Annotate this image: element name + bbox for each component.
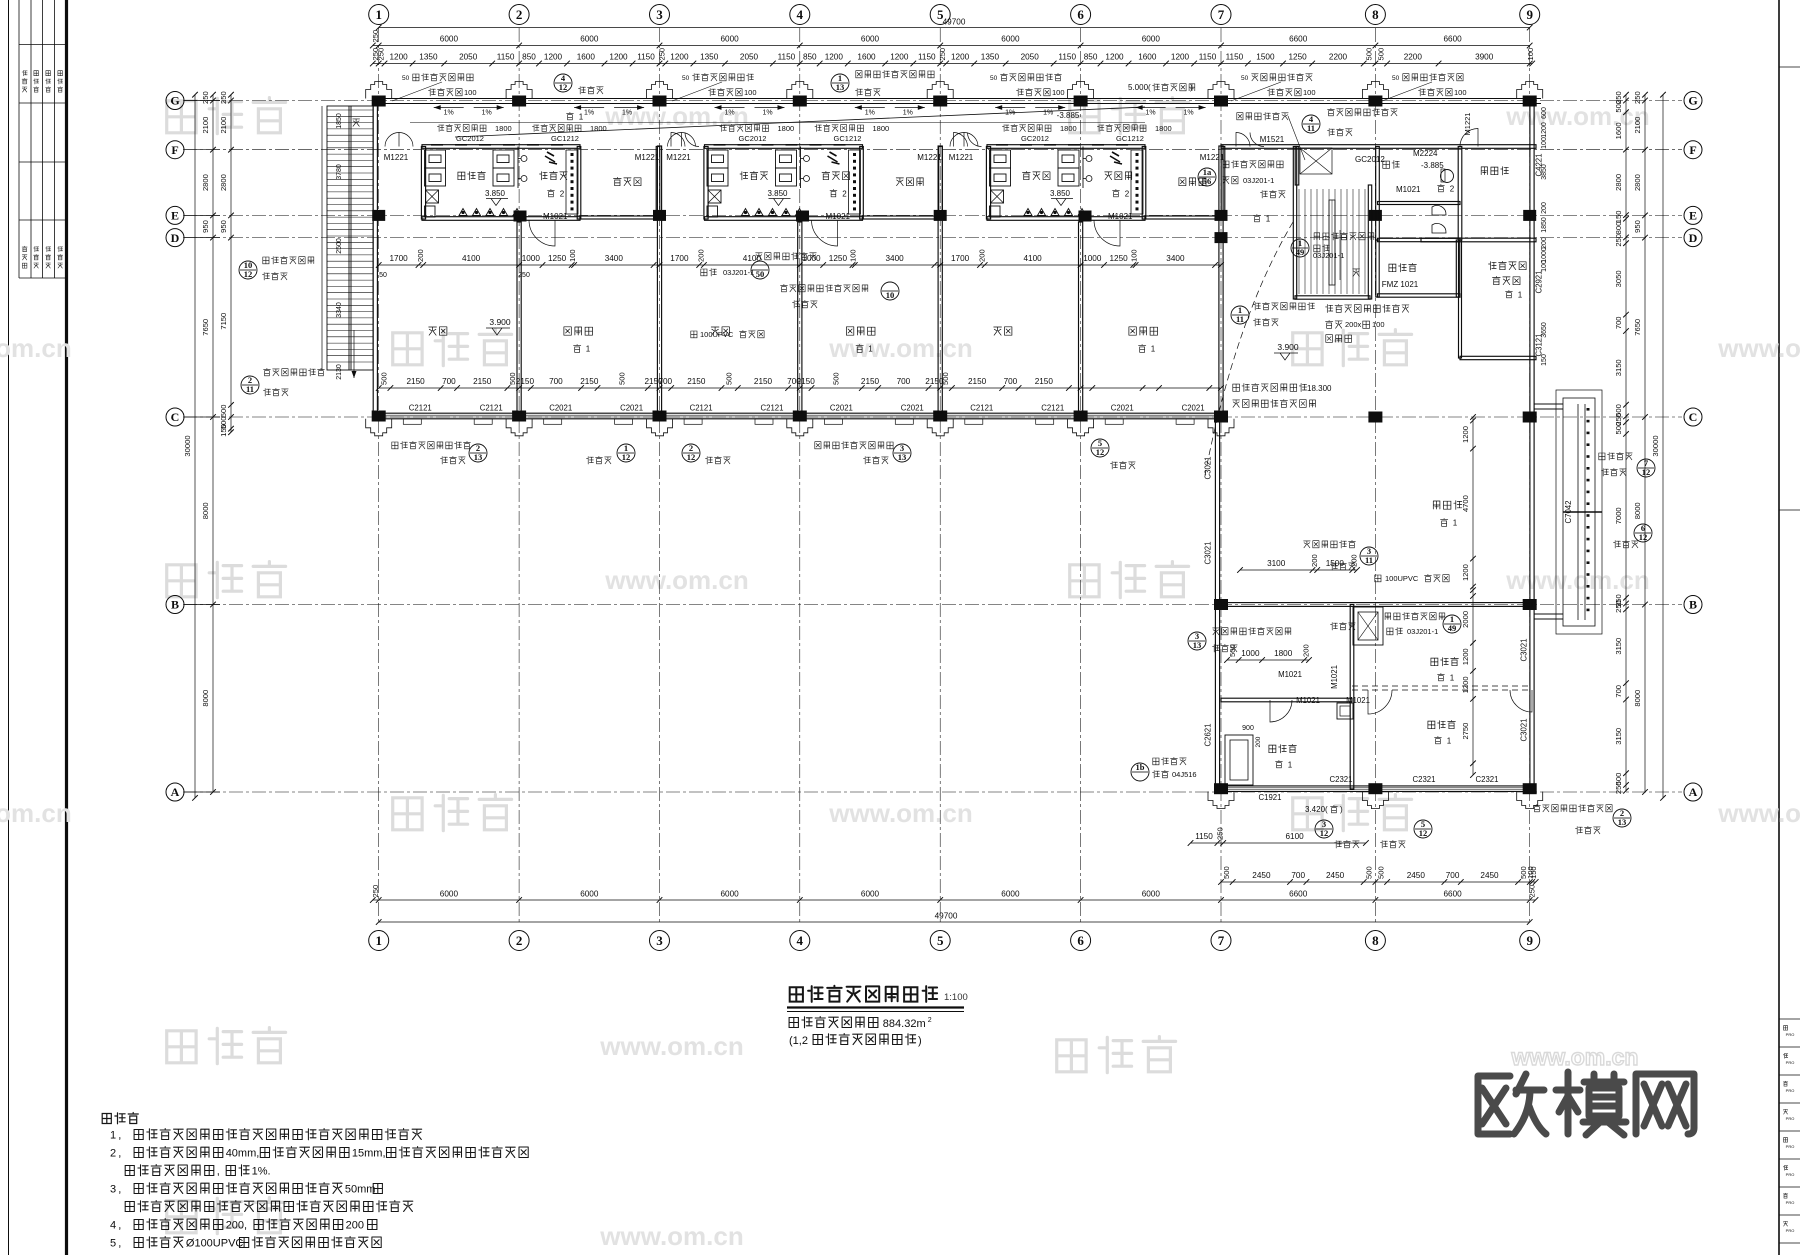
svg-text:500: 500 xyxy=(380,372,389,385)
svg-text:500: 500 xyxy=(1365,866,1374,879)
svg-text:4700: 4700 xyxy=(1461,495,1470,512)
svg-text:1: 1 xyxy=(586,345,591,354)
svg-text:M1021: M1021 xyxy=(1296,696,1320,705)
main wing left exterior wall xyxy=(373,99,377,418)
svg-text:3.850: 3.850 xyxy=(1050,189,1071,198)
svg-text:1%: 1% xyxy=(865,110,875,117)
storage room label xyxy=(1331,622,1356,630)
svg-text:3050: 3050 xyxy=(1614,270,1623,287)
corridor inner edge line xyxy=(410,122,1145,124)
svg-text:3100: 3100 xyxy=(1267,559,1286,568)
svg-text:1200: 1200 xyxy=(670,53,689,62)
drawing title xyxy=(790,986,937,1002)
svg-text:1600: 1600 xyxy=(1138,53,1157,62)
svg-text:C2121: C2121 xyxy=(480,404,503,413)
svg-text:250: 250 xyxy=(377,48,386,61)
canopy annotation bottom-left of wing xyxy=(1153,757,1186,765)
staff toilet leader bubble 4/11 xyxy=(1302,115,1320,133)
svg-text:1%: 1% xyxy=(584,110,594,117)
svg-text:250: 250 xyxy=(938,48,947,61)
svg-text:250: 250 xyxy=(1614,781,1623,794)
svg-text:200: 200 xyxy=(1350,554,1359,567)
svg-text:2000: 2000 xyxy=(1461,611,1470,628)
lift leader bubble 3/11 xyxy=(1360,547,1378,565)
svg-text:6600: 6600 xyxy=(1443,890,1462,899)
svg-text:M2224: M2224 xyxy=(1413,149,1438,158)
svg-text:2130: 2130 xyxy=(336,364,343,380)
electrical room label xyxy=(1389,263,1417,272)
svg-text:C1921: C1921 xyxy=(1259,793,1282,802)
svg-text:1%: 1% xyxy=(1043,110,1053,117)
svg-text:2150: 2150 xyxy=(406,377,425,386)
svg-text:30000: 30000 xyxy=(183,435,192,456)
svg-text:12: 12 xyxy=(1320,828,1329,838)
svg-text:M1021: M1021 xyxy=(1330,665,1339,689)
svg-text:3150: 3150 xyxy=(1614,638,1623,655)
svg-text:1200: 1200 xyxy=(544,53,563,62)
svg-text:50: 50 xyxy=(1392,75,1400,82)
svg-text:C2321: C2321 xyxy=(1413,775,1436,784)
svg-text:1200: 1200 xyxy=(1541,122,1548,138)
svg-text:1800: 1800 xyxy=(590,124,607,133)
horizontal grid lines A-G xyxy=(183,100,1682,102)
stair lou1 label xyxy=(1254,214,1261,222)
svg-text:18.300: 18.300 xyxy=(1307,384,1332,393)
svg-text:C2121: C2121 xyxy=(1041,404,1064,413)
svg-text:100UPVC: 100UPVC xyxy=(700,330,734,339)
svg-text:2150: 2150 xyxy=(797,377,816,386)
svg-text:2050: 2050 xyxy=(1021,53,1040,62)
svg-text:C2121: C2121 xyxy=(761,404,784,413)
svg-text:1200: 1200 xyxy=(1461,648,1470,665)
svg-text:1800: 1800 xyxy=(1060,124,1077,133)
svg-text:1200: 1200 xyxy=(609,53,628,62)
sheet border left thin line xyxy=(8,0,10,1255)
office room labels xyxy=(1431,657,1459,666)
svg-text:900: 900 xyxy=(1242,725,1254,732)
svg-text:3850: 3850 xyxy=(1541,164,1548,180)
svg-text:2450: 2450 xyxy=(1252,871,1271,880)
svg-text:3.900: 3.900 xyxy=(489,317,511,327)
svg-text:M1221: M1221 xyxy=(635,153,660,162)
svg-text:200: 200 xyxy=(697,249,706,262)
sheet border left thick line xyxy=(65,0,68,1255)
svg-text:): ) xyxy=(918,1035,922,1047)
svg-text:3400: 3400 xyxy=(1166,254,1185,263)
svg-text:12: 12 xyxy=(559,82,568,92)
svg-text:www.om.cn: www.om.cn xyxy=(1505,565,1650,595)
svg-text:1800: 1800 xyxy=(495,124,512,133)
top leader bubble 1/13 xyxy=(831,74,849,92)
svg-text:E: E xyxy=(171,209,179,223)
svg-text:1600: 1600 xyxy=(857,53,876,62)
svg-text:C2021: C2021 xyxy=(549,404,572,413)
svg-text:GC2012: GC2012 xyxy=(456,134,484,143)
window sill bumps row C xyxy=(403,419,421,425)
svg-text:100: 100 xyxy=(1526,48,1535,61)
svg-text:M1021: M1021 xyxy=(1346,696,1370,705)
svg-text:250: 250 xyxy=(219,91,228,104)
svg-text:1%: 1% xyxy=(903,110,913,117)
svg-text:100: 100 xyxy=(1303,88,1316,97)
svg-text:1250: 1250 xyxy=(1109,254,1128,263)
svg-text:1150: 1150 xyxy=(1195,832,1213,841)
svg-text:C2121: C2121 xyxy=(690,404,713,413)
svg-text:3780: 3780 xyxy=(336,164,343,180)
svg-text:100: 100 xyxy=(1052,88,1065,97)
leader lines top xyxy=(392,82,442,101)
svg-text:6000: 6000 xyxy=(440,35,459,44)
bottom detail dims right wing xyxy=(1221,881,1536,883)
svg-text:,: , xyxy=(118,1148,124,1160)
svg-text:(1,2: (1,2 xyxy=(789,1035,808,1047)
svg-text:5: 5 xyxy=(110,1238,116,1250)
external stair no.2 xyxy=(327,106,373,370)
svg-text:www.om.cn: www.om.cn xyxy=(0,798,72,828)
svg-text:): ) xyxy=(1340,805,1343,814)
svg-text:D: D xyxy=(171,231,180,245)
svg-text:700: 700 xyxy=(658,377,672,386)
roof hatch dashed box xyxy=(1300,148,1332,174)
urinal fixtures xyxy=(1432,205,1446,215)
svg-text:2: 2 xyxy=(1450,185,1455,194)
svg-text:GC1212: GC1212 xyxy=(551,134,579,143)
cloakroom partitions xyxy=(656,147,660,220)
svg-text:8: 8 xyxy=(1372,933,1379,948)
svg-text:1350: 1350 xyxy=(419,53,438,62)
svg-text:8000: 8000 xyxy=(1633,690,1642,707)
svg-text:www.om.cn: www.om.cn xyxy=(0,333,72,363)
svg-text:PRO: PRO xyxy=(1786,1116,1795,1121)
svg-text:50mm: 50mm xyxy=(345,1184,376,1196)
svg-text:500: 500 xyxy=(725,372,734,385)
rainpipe label lower xyxy=(1375,575,1381,582)
svg-text:C2021: C2021 xyxy=(830,404,853,413)
svg-text:1800: 1800 xyxy=(1274,649,1293,658)
svg-text:2800: 2800 xyxy=(219,174,228,191)
svg-text:200x: 200x xyxy=(1345,320,1362,329)
svg-text:100: 100 xyxy=(1129,249,1138,262)
svg-text:500: 500 xyxy=(1376,48,1385,61)
svg-text:F: F xyxy=(1689,143,1696,157)
grid circles left A-G xyxy=(166,92,184,110)
svg-text:200: 200 xyxy=(977,249,986,262)
sanitary module unit 3 xyxy=(987,145,1145,149)
rainpipe annotation upper xyxy=(1291,239,1309,257)
svg-text:11: 11 xyxy=(246,384,254,394)
title area note line 1 xyxy=(789,1017,878,1028)
svg-text:2500: 2500 xyxy=(336,238,343,254)
svg-text:50: 50 xyxy=(756,269,765,279)
svg-text:4100: 4100 xyxy=(1023,254,1042,263)
svg-text:2800: 2800 xyxy=(201,174,210,191)
svg-text:6000: 6000 xyxy=(720,35,739,44)
svg-text:11: 11 xyxy=(1365,555,1373,565)
svg-text:500: 500 xyxy=(832,372,841,385)
svg-text:1b: 1b xyxy=(1136,762,1145,772)
svg-text:2200: 2200 xyxy=(1329,53,1348,62)
svg-text:Ø100UPVC: Ø100UPVC xyxy=(186,1238,244,1250)
svg-text:G: G xyxy=(170,94,179,108)
stair leader bubble 2/11 xyxy=(241,376,259,394)
svg-text:200: 200 xyxy=(1541,237,1548,249)
room interior dim row upper xyxy=(379,264,1221,266)
svg-text:1500: 1500 xyxy=(1326,559,1345,568)
svg-text:1600: 1600 xyxy=(577,53,596,62)
svg-text:50: 50 xyxy=(682,75,690,82)
svg-text:C2621: C2621 xyxy=(1204,724,1213,747)
svg-text:www.om.cn: www.om.cn xyxy=(828,798,973,828)
svg-text:50: 50 xyxy=(990,75,998,82)
svg-text:,: , xyxy=(217,1166,220,1178)
svg-text:700: 700 xyxy=(1614,316,1623,329)
columns right wing rows C/B/A xyxy=(1214,412,1228,423)
corridor doors M1221 arcs xyxy=(385,133,399,147)
svg-text:,: , xyxy=(118,1220,124,1232)
sanitary module unit 1 (WC+wash+cloak) xyxy=(422,145,580,149)
bottom overall dim 49700 xyxy=(379,921,1530,923)
svg-text:2800: 2800 xyxy=(1633,174,1642,191)
svg-text:-3.885: -3.885 xyxy=(1057,111,1080,120)
office partition wall row B xyxy=(1221,603,1532,607)
svg-text:200: 200 xyxy=(346,1220,364,1232)
svg-text:100UPVC: 100UPVC xyxy=(1385,574,1419,583)
unit enlargement note xyxy=(781,284,868,292)
svg-text:PRO: PRO xyxy=(1786,1172,1795,1177)
svg-text:F: F xyxy=(171,143,178,157)
bottom mini dims 1150 250 6100 xyxy=(1191,842,1366,844)
svg-text:6000: 6000 xyxy=(861,35,880,44)
archive room label xyxy=(1481,167,1508,175)
svg-text:3400: 3400 xyxy=(885,254,904,263)
svg-text:C2921: C2921 xyxy=(1535,271,1544,294)
svg-text:1: 1 xyxy=(1288,761,1293,770)
top overall dimension 49700 xyxy=(379,27,1530,29)
interior mini dims right wing xyxy=(1240,569,1357,571)
svg-text:FMZ 1021: FMZ 1021 xyxy=(1382,280,1419,289)
svg-text:M1221: M1221 xyxy=(949,153,974,162)
svg-text:6: 6 xyxy=(1077,933,1084,948)
right detail dim chain xyxy=(1625,95,1627,791)
svg-text:2200: 2200 xyxy=(1404,53,1423,62)
svg-text:13: 13 xyxy=(1193,640,1202,650)
bottom leader bubbles right wing xyxy=(1315,820,1333,838)
title-block table top-left xyxy=(18,0,20,278)
svg-text:2: 2 xyxy=(110,1148,116,1160)
svg-text:100: 100 xyxy=(568,249,577,262)
svg-text:1150: 1150 xyxy=(1226,53,1244,62)
svg-text:): ) xyxy=(1190,83,1193,92)
svg-text:,: , xyxy=(118,1238,124,1250)
svg-text:M1221: M1221 xyxy=(384,153,409,162)
svg-text:2100: 2100 xyxy=(219,117,228,134)
svg-text:6000: 6000 xyxy=(1001,35,1020,44)
bottom bay dims xyxy=(373,899,1536,901)
svg-text:1%: 1% xyxy=(444,110,454,117)
svg-text:1250: 1250 xyxy=(829,254,848,263)
svg-text:884.32m: 884.32m xyxy=(883,1018,926,1030)
svg-text:1600: 1600 xyxy=(1614,122,1623,139)
svg-text:1:100: 1:100 xyxy=(944,992,968,1003)
svg-text:2450: 2450 xyxy=(1326,871,1345,880)
svg-text:2150: 2150 xyxy=(754,377,773,386)
small niche room bottom-left of wing xyxy=(1225,735,1253,785)
svg-text:www.om.cn: www.om.cn xyxy=(1717,798,1800,828)
svg-text:2800: 2800 xyxy=(1614,174,1623,191)
svg-text:1250: 1250 xyxy=(548,254,567,263)
svg-text:7650: 7650 xyxy=(201,319,210,336)
svg-text:A: A xyxy=(171,785,180,799)
svg-text:04J516: 04J516 xyxy=(1172,770,1197,779)
svg-text:M1221: M1221 xyxy=(1463,113,1472,136)
svg-text:12: 12 xyxy=(244,269,253,279)
svg-text:12: 12 xyxy=(1096,447,1105,457)
construction columns row G with decorative caps xyxy=(366,82,392,99)
svg-text:700: 700 xyxy=(1291,871,1305,880)
bay window leader bubbles 7/12 6/12 xyxy=(1637,459,1655,477)
lift shaft xyxy=(1353,607,1383,645)
svg-text:6000: 6000 xyxy=(1001,890,1020,899)
svg-text:3340: 3340 xyxy=(336,302,343,318)
svg-text:700: 700 xyxy=(1614,685,1623,698)
svg-text:1350: 1350 xyxy=(700,53,719,62)
svg-text:6000: 6000 xyxy=(1142,35,1161,44)
svg-text:2150: 2150 xyxy=(473,377,492,386)
svg-text:M1021: M1021 xyxy=(1396,185,1421,194)
svg-text:4: 4 xyxy=(797,7,804,22)
svg-text:,: , xyxy=(118,1184,124,1196)
left overall dim 30000 xyxy=(194,95,196,798)
svg-text:6000: 6000 xyxy=(440,890,459,899)
svg-text:50: 50 xyxy=(1241,75,1249,82)
svg-text:100: 100 xyxy=(1541,137,1548,149)
svg-text:5: 5 xyxy=(937,933,944,948)
svg-text:8: 8 xyxy=(1372,7,1379,22)
svg-text:-3.885: -3.885 xyxy=(1421,161,1444,170)
module black columns M1021 and row E grid columns xyxy=(514,211,527,222)
svg-text:M1221: M1221 xyxy=(1200,153,1225,162)
svg-text:1%: 1% xyxy=(482,110,492,117)
svg-text:7: 7 xyxy=(1218,933,1225,948)
arc length annotation xyxy=(1233,383,1307,391)
svg-text:M1221: M1221 xyxy=(917,153,942,162)
svg-text:1700: 1700 xyxy=(951,254,970,263)
svg-text:7650: 7650 xyxy=(1633,319,1642,336)
stair label xia (down) xyxy=(353,119,360,126)
svg-text:500: 500 xyxy=(1614,422,1623,435)
right overall dim 30000 xyxy=(1662,95,1664,798)
sheet border right line xyxy=(1778,0,1780,1255)
svg-text:250: 250 xyxy=(657,48,666,61)
svg-text:GC2012: GC2012 xyxy=(1355,155,1385,164)
svg-text:1200: 1200 xyxy=(1461,676,1470,693)
svg-text:2: 2 xyxy=(516,7,523,22)
svg-text:www.om.cn: www.om.cn xyxy=(599,1031,744,1061)
svg-text:250: 250 xyxy=(1614,600,1623,613)
svg-text:250: 250 xyxy=(1633,91,1642,104)
svg-text:49700: 49700 xyxy=(935,912,958,921)
svg-text:250: 250 xyxy=(201,91,210,104)
svg-text:www.om.cn: www.om.cn xyxy=(1717,333,1800,363)
title-block cells bottom-right xyxy=(1779,66,1800,68)
svg-text:500: 500 xyxy=(1614,100,1623,113)
svg-text:4100: 4100 xyxy=(462,254,481,263)
svg-text:100: 100 xyxy=(849,249,858,262)
svg-text:4: 4 xyxy=(110,1220,116,1232)
svg-text:PRO: PRO xyxy=(1786,1088,1795,1093)
svg-text:E: E xyxy=(1689,209,1697,223)
svg-text:1700: 1700 xyxy=(670,254,689,263)
svg-text:500: 500 xyxy=(1222,866,1231,879)
svg-text:13: 13 xyxy=(836,82,845,92)
stair no.1 down arrow and label xyxy=(1353,269,1360,276)
svg-text:500: 500 xyxy=(618,372,627,385)
office lower partition xyxy=(1221,698,1352,702)
svg-text:1%.: 1%. xyxy=(252,1166,271,1178)
svg-text:1: 1 xyxy=(375,933,382,948)
svg-text:49: 49 xyxy=(1448,623,1457,633)
svg-text:03J201-1: 03J201-1 xyxy=(723,268,754,277)
watermark tiles xyxy=(167,98,286,134)
svg-text:M1021: M1021 xyxy=(1278,670,1302,679)
svg-text:G: G xyxy=(1688,94,1697,108)
svg-text:1200: 1200 xyxy=(825,53,844,62)
svg-text:1: 1 xyxy=(868,345,873,354)
svg-text:500: 500 xyxy=(1376,866,1385,879)
svg-text:C2321: C2321 xyxy=(1330,775,1353,784)
grid circles right A-G xyxy=(1684,92,1702,110)
svg-text:100: 100 xyxy=(464,88,477,97)
svg-text:3.850: 3.850 xyxy=(767,189,788,198)
rainpipe note mid xyxy=(756,252,817,260)
svg-text:2150: 2150 xyxy=(580,377,599,386)
svg-text:M1521: M1521 xyxy=(1260,135,1285,144)
svg-text:1%: 1% xyxy=(622,110,632,117)
svg-text:D: D xyxy=(1689,231,1698,245)
svg-text:,: , xyxy=(118,1130,124,1142)
svg-text:2050: 2050 xyxy=(459,53,478,62)
svg-text:12: 12 xyxy=(687,452,696,462)
svg-text:150: 150 xyxy=(1541,354,1548,366)
svg-text:5.000(: 5.000( xyxy=(1128,83,1151,92)
svg-text:A: A xyxy=(1689,785,1698,799)
stair no.1 leader bubble 1/11 xyxy=(1231,306,1249,324)
module door arcs to rooms xyxy=(529,220,555,246)
svg-text:C2021: C2021 xyxy=(1182,404,1205,413)
sanitary module unit 2 xyxy=(705,145,863,149)
svg-text:800: 800 xyxy=(1614,222,1623,235)
corridor slope arrows 1% xyxy=(434,107,464,109)
svg-text:1200: 1200 xyxy=(890,53,909,62)
top detail dimensions xyxy=(373,63,1532,65)
svg-text:13: 13 xyxy=(474,452,483,462)
svg-text:6000: 6000 xyxy=(720,890,739,899)
notes block xyxy=(102,1113,138,1124)
svg-text:700: 700 xyxy=(549,377,563,386)
svg-text:1150: 1150 xyxy=(497,53,515,62)
electrical room walls xyxy=(1378,238,1461,241)
svg-text:1850: 1850 xyxy=(336,113,343,129)
svg-text:www.om.cn: www.om.cn xyxy=(828,333,973,363)
svg-text:1200: 1200 xyxy=(1461,564,1470,581)
svg-text:2: 2 xyxy=(560,190,565,199)
svg-text:1150: 1150 xyxy=(778,53,796,62)
svg-text:50: 50 xyxy=(379,272,387,279)
svg-text:250: 250 xyxy=(1528,885,1537,898)
svg-text:3150: 3150 xyxy=(1614,728,1623,745)
room name labels main wing xyxy=(429,327,447,335)
svg-text:2150: 2150 xyxy=(968,377,987,386)
